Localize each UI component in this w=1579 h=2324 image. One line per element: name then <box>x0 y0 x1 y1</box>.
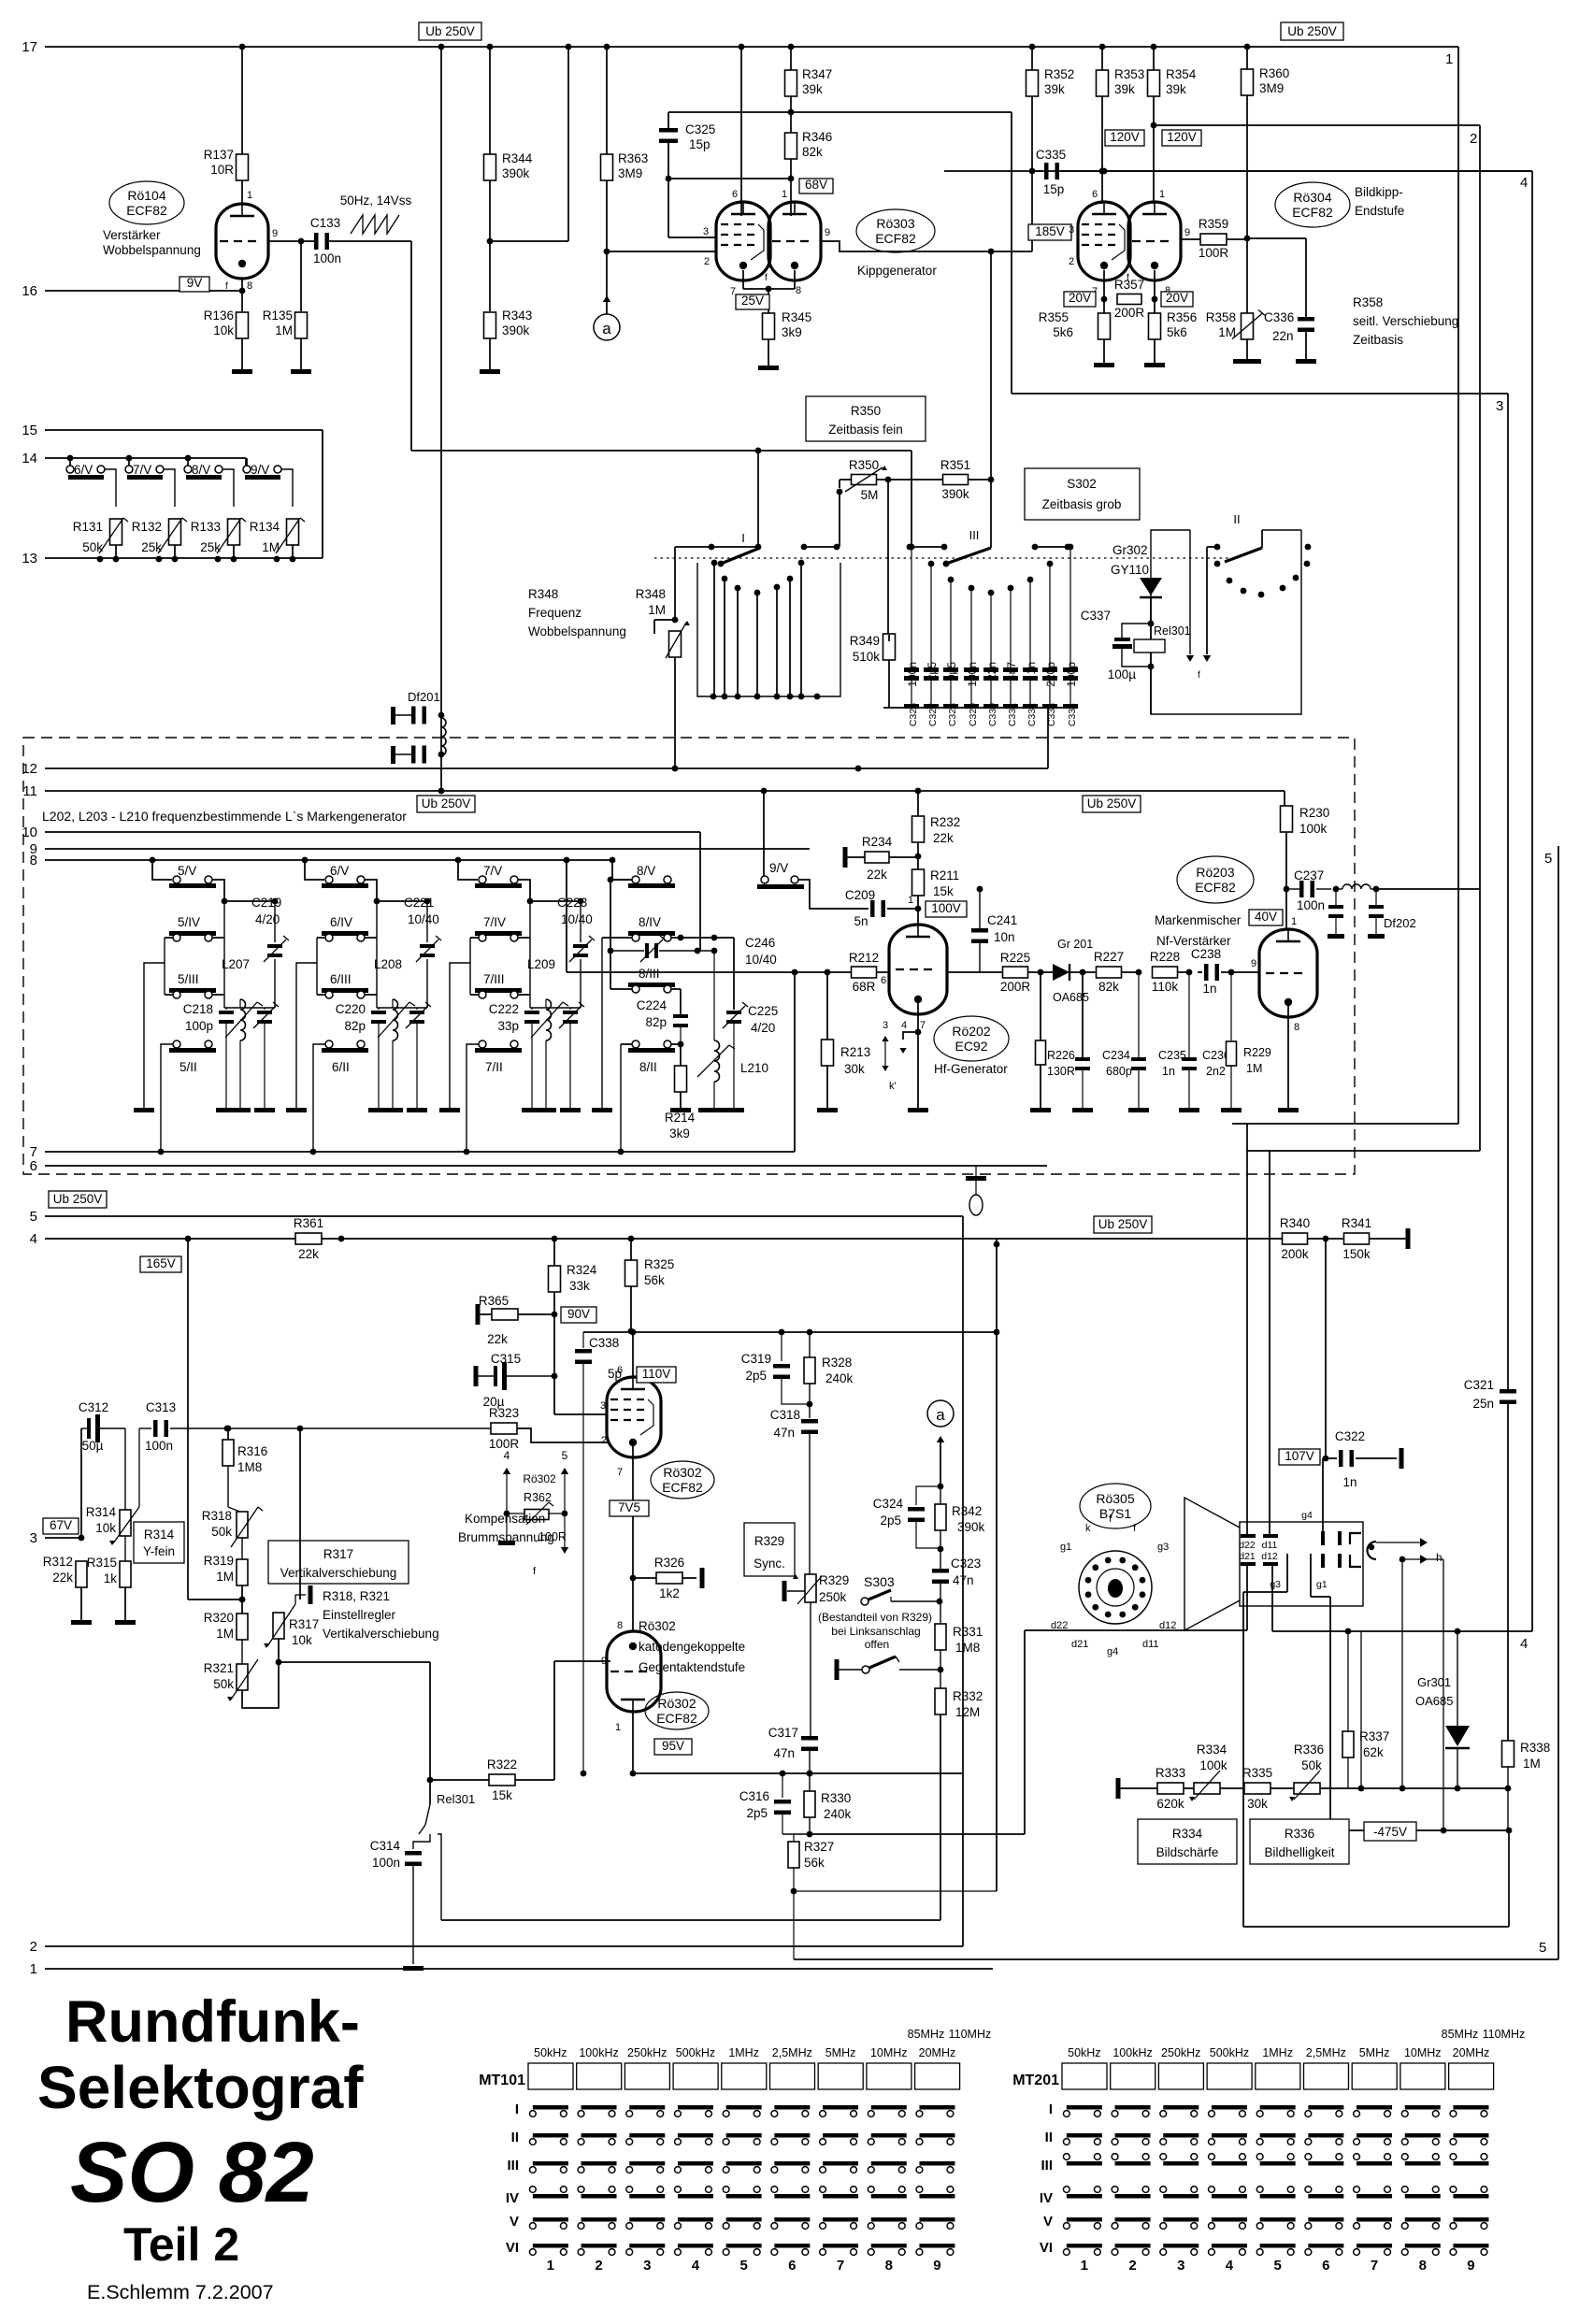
svg-text:240k: 240k <box>824 1807 852 1821</box>
svg-text:1: 1 <box>547 2258 554 2274</box>
wire 6 right bus <box>365 901 377 1008</box>
switch matrix MT101 row I <box>515 2102 955 2117</box>
svg-text:390k: 390k <box>941 487 969 501</box>
svg-text:4: 4 <box>692 2258 700 2274</box>
svg-text:250kHz: 250kHz <box>1161 2046 1200 2059</box>
capacitor C334 <box>1063 544 1078 727</box>
svg-text:Rel301: Rel301 <box>437 1792 475 1806</box>
svg-text:9: 9 <box>1184 227 1190 238</box>
svg-text:4: 4 <box>1226 2258 1234 2274</box>
wire R132 to line13 <box>156 545 179 562</box>
switch matrix MT101 header box 2 <box>577 2063 622 2089</box>
wire R134 to line13 <box>274 545 296 562</box>
wire tank bus 6 <box>377 1007 427 1009</box>
svg-text:C312: C312 <box>79 1400 108 1414</box>
resistor R363 <box>601 151 649 180</box>
voltage 67V box <box>43 1518 79 1534</box>
switch contact 7/II <box>475 1040 522 1074</box>
ground under L210 <box>698 1108 730 1112</box>
svg-text:4: 4 <box>1520 1636 1528 1652</box>
inductor L207 <box>222 957 263 1108</box>
wire R332 to y2054 line <box>441 1714 940 1920</box>
tube Ro302b label ellipse <box>645 1692 709 1729</box>
title SO 82 <box>70 2125 314 2220</box>
svg-text:200R: 200R <box>1114 306 1145 320</box>
switch S302 bank I wiper <box>718 548 760 567</box>
svg-text:C326: C326 <box>908 703 919 726</box>
switch matrix MT101 label <box>479 2073 525 2088</box>
wire R360 down to node <box>1244 95 1251 313</box>
tube Ro304a internals <box>1082 202 1125 269</box>
switch S302 bank III label <box>969 528 980 542</box>
wire R348 to bank I <box>672 547 711 623</box>
capacitor C224 <box>637 998 688 1044</box>
svg-text:k: k <box>1085 1523 1091 1534</box>
svg-text:1M: 1M <box>1246 1062 1262 1075</box>
capacitor C324 <box>873 1486 940 1548</box>
power Ub 250V box (line 11 mid) <box>1083 796 1141 812</box>
svg-text:6/IV: 6/IV <box>330 915 352 929</box>
svg-text:R326: R326 <box>654 1556 684 1570</box>
capacitor C336 <box>1264 310 1314 343</box>
wire Ro304 cathode right <box>1152 270 1158 313</box>
wire R312 ground lead <box>80 1587 82 1620</box>
tube Ro303a internals <box>721 202 764 269</box>
svg-text:100k: 100k <box>1199 1758 1227 1772</box>
wire line7 to R212 <box>564 857 851 1152</box>
capacitor C325 <box>659 122 715 151</box>
wire pin9 Ro104 to C133 <box>268 228 314 244</box>
resistor R353 <box>1097 67 1145 96</box>
svg-text:C316: C316 <box>739 1789 769 1803</box>
inductor L209 <box>527 957 568 1108</box>
ground under C218 <box>216 1108 237 1112</box>
switch S302 bank I label <box>741 531 745 545</box>
resistor R322 <box>430 1757 526 1802</box>
capacitor C234 <box>1075 1049 1132 1108</box>
svg-text:1n: 1n <box>1025 662 1038 674</box>
switch matrix MT101 row IV <box>506 2187 955 2206</box>
diode Gr201 OA685 <box>1041 938 1093 1004</box>
resistor R357 <box>1114 278 1145 320</box>
svg-text:Rö302: Rö302 <box>657 1696 696 1711</box>
wire y1424 line <box>583 1329 999 1336</box>
svg-text:Rel301: Rel301 <box>1154 624 1191 638</box>
capacitor C330 <box>983 590 998 727</box>
tube Ro303 pin labels <box>703 189 830 297</box>
svg-text:1M: 1M <box>1218 325 1236 339</box>
wire Ro302a cathode down <box>630 1442 637 1631</box>
wire R211 to tube <box>917 896 919 925</box>
svg-text:R336: R336 <box>1285 1827 1314 1841</box>
svg-text:Gr 201: Gr 201 <box>1057 938 1093 951</box>
svg-text:3: 3 <box>703 226 709 237</box>
ground under R358 <box>1233 359 1261 364</box>
svg-text:a: a <box>602 320 611 337</box>
switch matrix MT201 header box 3 <box>1158 2063 1203 2089</box>
svg-text:5M: 5M <box>861 488 879 502</box>
terminal k' <box>966 1166 986 1215</box>
feedthrough Df201 <box>391 690 444 724</box>
terminal a lower <box>927 1400 954 1427</box>
svg-text:2: 2 <box>704 256 710 267</box>
svg-text:C337: C337 <box>1081 609 1111 623</box>
resistor R213 <box>822 1040 871 1076</box>
svg-text:R316: R316 <box>237 1444 267 1458</box>
wire 7 right bus <box>518 901 530 1008</box>
wire line17 to R344 <box>487 44 494 154</box>
wire 6/II drop <box>310 1044 325 1155</box>
svg-text:9/V: 9/V <box>769 861 788 875</box>
switch Rel301 contact <box>413 1777 475 1920</box>
svg-text:ECF82: ECF82 <box>126 203 167 218</box>
svg-text:510k: 510k <box>853 650 881 664</box>
wire C237 line to right <box>1376 888 1480 890</box>
voltage 25V box <box>736 294 769 309</box>
wire bus15-bus13 corner <box>322 430 323 558</box>
svg-text:50µ: 50µ <box>82 1439 104 1453</box>
svg-text:C319: C319 <box>741 1352 771 1366</box>
wire line8 to 6/V <box>302 857 324 880</box>
terminal a (top) <box>594 314 620 340</box>
svg-text:R318, R321: R318, R321 <box>323 1589 390 1603</box>
svg-text:R331: R331 <box>953 1625 983 1639</box>
wire grid line y269 <box>607 251 716 252</box>
wire R345 to ground <box>768 339 769 366</box>
wire line11 node R232 <box>915 788 922 816</box>
switch matrix MT201 header box 5 <box>1256 2063 1300 2089</box>
switch contact 8/IV <box>628 915 675 941</box>
svg-text:R232: R232 <box>930 815 960 829</box>
resistor R346 <box>785 130 833 159</box>
svg-text:C338: C338 <box>589 1336 619 1350</box>
wire cathode k down <box>1360 1631 1362 1788</box>
svg-text:R226: R226 <box>1047 1049 1075 1062</box>
svg-text:R350: R350 <box>849 458 879 472</box>
svg-text:bei Linksanschlag: bei Linksanschlag <box>831 1625 920 1638</box>
svg-text:165V: 165V <box>146 1256 176 1270</box>
svg-text:250k: 250k <box>819 1590 847 1604</box>
voltage 40V box <box>1249 910 1283 925</box>
svg-text:5k6: 5k6 <box>1167 325 1187 339</box>
ground under trimmer 5 <box>254 1108 275 1112</box>
wire R356 ground lead <box>1154 339 1156 363</box>
switch matrix MT201 row IV <box>1040 2187 1489 2206</box>
wire bus line 9 <box>30 841 810 857</box>
capacitor C333 <box>1042 561 1057 727</box>
svg-text:C327: C327 <box>927 703 939 726</box>
terminal bar R329 <box>782 1581 787 1601</box>
svg-text:R335: R335 <box>1242 1766 1272 1780</box>
svg-text:100n: 100n <box>906 662 919 687</box>
wire C209 to grid node <box>887 895 921 911</box>
trimmer capacitor C246 <box>608 936 777 967</box>
svg-text:9: 9 <box>1251 958 1256 969</box>
svg-text:R234: R234 <box>862 835 893 849</box>
wire 8/V left bus <box>608 877 632 951</box>
power Ub 250V box (line 5) <box>49 1191 107 1208</box>
text MT101 column numbers <box>547 2258 941 2274</box>
switch matrix MT101 header box 6 <box>770 2063 815 2089</box>
svg-text:17: 17 <box>22 39 37 55</box>
svg-text:Ub 250V: Ub 250V <box>53 1192 103 1206</box>
svg-text:d12: d12 <box>1261 1551 1278 1562</box>
svg-text:C318: C318 <box>770 1408 800 1422</box>
wire 7/II drop <box>464 1044 479 1155</box>
power Ub 250V box (top right) <box>1281 22 1343 40</box>
text Ro302 inset <box>523 1472 556 1504</box>
svg-text:39k: 39k <box>1166 82 1186 96</box>
svg-text:R320: R320 <box>204 1611 234 1625</box>
svg-text:500kHz: 500kHz <box>1210 2046 1249 2059</box>
svg-text:5: 5 <box>1544 851 1552 867</box>
switch matrix MT201 header box 4 <box>1207 2063 1252 2089</box>
svg-text:Wobbelspannung: Wobbelspannung <box>103 243 201 257</box>
ground under L207 <box>230 1108 251 1112</box>
svg-text:C317: C317 <box>768 1726 798 1740</box>
tube Ro104 internals <box>220 204 261 267</box>
wire g4 to 107V <box>1323 1456 1329 1531</box>
svg-text:III: III <box>969 528 980 542</box>
trimmer tank 5 <box>253 1002 279 1108</box>
power Ub 250V box (line 11 left) <box>417 796 475 812</box>
svg-text:10: 10 <box>22 825 37 840</box>
resistor R343 <box>484 308 533 338</box>
wire R321 bottom loop <box>242 1639 279 1708</box>
svg-text:Ub 250V: Ub 250V <box>1287 24 1337 38</box>
svg-text:4/20: 4/20 <box>255 912 280 926</box>
svg-text:C218: C218 <box>183 1002 213 1016</box>
svg-text:g4: g4 <box>1301 1510 1313 1521</box>
svg-text:g1: g1 <box>1316 1579 1328 1590</box>
svg-text:107V: 107V <box>1285 1449 1314 1463</box>
wire bus line 12 <box>22 761 1048 777</box>
svg-text:9: 9 <box>825 227 830 238</box>
svg-text:R357: R357 <box>1114 278 1144 292</box>
svg-text:C220: C220 <box>336 1002 366 1016</box>
svg-text:6: 6 <box>788 2258 796 2274</box>
resistor R136 <box>204 308 249 338</box>
switch matrix MT101 row III <box>507 2158 955 2173</box>
svg-text:7: 7 <box>920 1020 926 1031</box>
svg-text:100k: 100k <box>1299 822 1328 836</box>
title Rundfunk- <box>65 1989 360 2055</box>
ground under C314 <box>403 1966 423 1971</box>
voltage 7V5 box <box>610 1500 649 1516</box>
svg-text:offen: offen <box>865 1638 889 1651</box>
svg-text:22k: 22k <box>933 831 954 845</box>
svg-text:V: V <box>1043 2214 1053 2230</box>
switch matrix MT101 header box 4 <box>673 2063 718 2089</box>
svg-text:C237: C237 <box>1294 868 1324 882</box>
svg-text:100kHz: 100kHz <box>579 2046 618 2059</box>
switch S302 bank II frame <box>1151 530 1301 714</box>
svg-text:39k: 39k <box>1114 82 1135 96</box>
resistor R365 <box>479 1294 554 1346</box>
wire line12 riser to bank III <box>855 766 862 772</box>
svg-text:R135: R135 <box>263 308 293 323</box>
potentiometer R314 <box>86 1428 139 1545</box>
svg-text:25n: 25n <box>1472 1397 1494 1411</box>
wire line11 to R230 <box>1284 791 1285 806</box>
potentiometer R336 <box>1289 1743 1324 1801</box>
ground under L208 <box>382 1108 403 1112</box>
svg-text:250kHz: 250kHz <box>627 2046 667 2059</box>
svg-text:R212: R212 <box>849 951 879 965</box>
svg-text:R352: R352 <box>1044 67 1074 81</box>
resistor R356 <box>1149 310 1198 339</box>
text katodengekoppelte <box>639 1619 745 1674</box>
label box R317 Vertikalverschiebung <box>268 1541 409 1584</box>
svg-text:10MHz: 10MHz <box>1404 2046 1442 2059</box>
wire bus12 riser <box>1047 714 1049 768</box>
tube Ro303b envelope <box>768 202 821 280</box>
svg-text:110V: 110V <box>642 1367 671 1381</box>
tube Ro302a envelope <box>607 1377 661 1457</box>
svg-text:g3: g3 <box>1270 1579 1281 1590</box>
CRT grid g4 <box>1301 1510 1325 1568</box>
svg-text:620k: 620k <box>1156 1797 1184 1811</box>
svg-text:R134: R134 <box>250 520 280 534</box>
capacitor C209 <box>845 888 885 928</box>
wire bus line 1 <box>30 1961 993 1977</box>
resistor R227 <box>1083 950 1141 994</box>
wire R315 ground lead <box>124 1587 126 1620</box>
wire heater to chain <box>1401 1559 1403 1788</box>
resistor R312 <box>43 1555 87 1587</box>
wire C336 ground lead <box>1305 330 1307 359</box>
capacitor C338 <box>575 1332 622 1776</box>
tube Ro202 pin labels <box>881 975 926 1092</box>
svg-text:100n: 100n <box>372 1856 400 1870</box>
wire Ro302a anode up <box>632 1332 634 1377</box>
svg-text:390k: 390k <box>957 1520 985 1534</box>
svg-text:2,5MHz: 2,5MHz <box>772 2046 812 2059</box>
ground under R214 <box>670 1108 691 1112</box>
svg-text:Ub 250V: Ub 250V <box>425 24 475 38</box>
capacitor C331 <box>1003 585 1018 727</box>
potentiometer R329 <box>787 1573 849 1737</box>
capacitor C317 <box>768 1726 818 1776</box>
text frequenzbestimmende <box>42 809 407 824</box>
resistor R316 <box>222 1440 267 1474</box>
svg-text:390k: 390k <box>502 323 530 337</box>
svg-text:200k: 200k <box>1281 1247 1309 1261</box>
svg-text:C219: C219 <box>251 896 281 910</box>
svg-text:R318: R318 <box>202 1509 232 1523</box>
wire 6 left bus <box>296 938 325 1108</box>
svg-text:R351: R351 <box>940 458 970 472</box>
resistor R332 <box>935 1670 983 1719</box>
capacitor C222 <box>489 1002 539 1108</box>
svg-text:R358: R358 <box>1353 295 1383 309</box>
capacitor C133 <box>310 216 341 265</box>
ground left of L209 <box>439 1108 460 1112</box>
CRT heater arrows <box>1376 1538 1443 1564</box>
svg-text:5/V: 5/V <box>178 864 196 878</box>
svg-text:Vertikalverschiebung: Vertikalverschiebung <box>280 1566 397 1580</box>
wire R333 chain line <box>1120 1786 1508 1792</box>
feedthrough shunt cap left <box>1328 889 1344 939</box>
svg-text:100n: 100n <box>145 1439 173 1453</box>
svg-text:R131: R131 <box>73 520 103 534</box>
svg-text:R363: R363 <box>618 151 648 165</box>
trimmer capacitor C221 <box>404 896 441 1008</box>
switch S302 bank II arc contacts <box>1227 544 1312 598</box>
svg-text:9V: 9V <box>187 276 203 290</box>
wire sawtooth y482 line <box>411 448 912 547</box>
wire line8 to 7/V <box>455 857 478 880</box>
svg-text:ECF82: ECF82 <box>662 1480 703 1495</box>
tube Ro104 label ellipse <box>109 181 184 224</box>
svg-text:85MHz: 85MHz <box>908 2028 945 2041</box>
ground under C225 <box>724 1108 744 1112</box>
svg-text:10MHz: 10MHz <box>870 2046 908 2059</box>
svg-text:S302: S302 <box>1067 477 1097 491</box>
wire contact to R133 <box>222 469 234 507</box>
tube Ro304b internals <box>1132 202 1173 269</box>
svg-text:8: 8 <box>1294 1022 1299 1033</box>
wire Ro304 cathode left <box>1101 270 1108 313</box>
switch contact 8/III <box>628 967 675 993</box>
svg-text:2: 2 <box>1128 2258 1136 2274</box>
svg-text:100kHz: 100kHz <box>1112 2046 1152 2059</box>
resistor R320 <box>204 1611 248 1641</box>
svg-text:R317: R317 <box>289 1617 319 1631</box>
svg-text:Rö302: Rö302 <box>663 1465 701 1480</box>
label box R350 Zeitbasis fein <box>806 396 926 441</box>
svg-text:Ub 250V: Ub 250V <box>1098 1217 1148 1231</box>
svg-text:1MHz: 1MHz <box>1262 2046 1293 2059</box>
terminal bar C315 <box>474 1366 479 1386</box>
svg-text:VI: VI <box>1040 2240 1053 2256</box>
svg-text:R341: R341 <box>1342 1216 1371 1230</box>
CRT socket labels <box>1051 1513 1176 1657</box>
tube Ro302a internals <box>610 1377 653 1446</box>
inductor L210 <box>697 951 768 1108</box>
wire 6/V to trimmer node <box>365 880 430 904</box>
svg-text:3: 3 <box>1177 2258 1184 2274</box>
svg-text:9: 9 <box>1467 2258 1474 2274</box>
svg-text:ECF82: ECF82 <box>1292 205 1333 220</box>
svg-text:25k: 25k <box>141 540 162 554</box>
wire 8/III row <box>610 951 681 1014</box>
svg-text:katodengekoppelte: katodengekoppelte <box>639 1640 745 1654</box>
ground under R312 <box>71 1620 92 1625</box>
svg-text:C334: C334 <box>1067 703 1078 726</box>
svg-text:7: 7 <box>837 2258 844 2274</box>
svg-text:seitl. Verschiebung: seitl. Verschiebung <box>1353 314 1458 328</box>
tube Ro302 label ellipse <box>651 1461 714 1499</box>
svg-text:(Bestandteil von R329): (Bestandteil von R329) <box>818 1611 932 1624</box>
wire R135 up <box>300 241 302 311</box>
svg-text:6: 6 <box>1092 189 1098 200</box>
svg-text:C222: C222 <box>489 1002 519 1016</box>
svg-text:15k: 15k <box>492 1788 512 1802</box>
svg-text:2: 2 <box>1470 131 1477 147</box>
wire contact to R132 <box>164 469 175 507</box>
svg-text:7: 7 <box>1371 2258 1378 2274</box>
svg-text:22k: 22k <box>867 868 887 882</box>
switch contact 8/V <box>628 864 675 888</box>
wire line10 to C246 node <box>699 832 701 951</box>
resistor R352 <box>1026 44 1075 251</box>
ground under C235 <box>1128 1108 1149 1112</box>
switch contact 6/II <box>322 1040 368 1074</box>
svg-text:R225: R225 <box>1000 951 1030 965</box>
svg-text:15p: 15p <box>689 137 711 151</box>
svg-text:5: 5 <box>1539 1940 1546 1956</box>
